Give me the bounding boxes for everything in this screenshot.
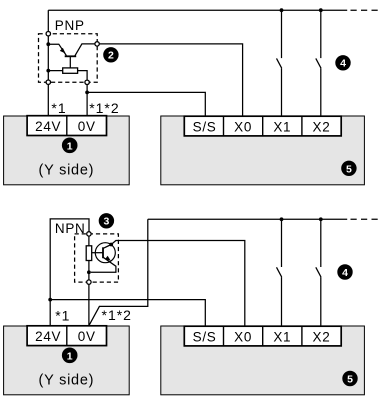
junction dot: PNP emitter node xyxy=(46,42,50,46)
wire: 24V to S/S (bottom) xyxy=(50,300,205,326)
terminal circle: PNP top xyxy=(46,32,50,36)
switch S3 blade xyxy=(277,267,282,277)
svg-text:3: 3 xyxy=(103,216,109,228)
terminal block 24V/0V (bottom) xyxy=(27,326,106,346)
wire: NPN main vertical lower to 0V terminal xyxy=(88,261,90,326)
wire: top rail dashed continuation xyxy=(351,9,379,11)
terminal circle: NPN bottom xyxy=(87,280,91,284)
junction dot: NPN emitter node xyxy=(87,270,91,274)
block: output unit (Y side) top xyxy=(4,116,130,185)
svg-text:(Y side): (Y side) xyxy=(39,162,95,178)
svg-text:*1: *1 xyxy=(55,308,70,324)
junction dot: NPN collector node xyxy=(109,243,113,247)
wire: X2 switch upper xyxy=(320,10,322,58)
junction dot: bottom rail X2 tap xyxy=(319,217,323,221)
wire: 0V drop from sensor to 0V terminal xyxy=(86,84,88,115)
terminal block S/S X0 X1 X2 (bottom) xyxy=(184,326,341,346)
wire: top 24V rail xyxy=(48,9,347,11)
block: output unit (Y side) bottom xyxy=(4,326,130,395)
svg-text:1: 1 xyxy=(67,350,73,362)
wire: PNP lower horizontal through resistor xyxy=(48,71,87,81)
transistor Q2 emitter lead with arrow xyxy=(91,257,116,272)
svg-text:NPN: NPN xyxy=(55,221,86,236)
svg-text:X1: X1 xyxy=(273,329,291,344)
junction dot: rail X1 tap xyxy=(280,8,284,12)
svg-text:X0: X0 xyxy=(234,329,252,344)
wire: bottom rail dashed continuation xyxy=(351,218,379,220)
svg-text:S/S: S/S xyxy=(193,329,217,344)
svg-text:X0: X0 xyxy=(234,119,252,134)
svg-text:X1: X1 xyxy=(273,119,291,134)
svg-text:4: 4 xyxy=(342,267,348,279)
wire: X2 switch lower (bottom) xyxy=(320,277,322,326)
svg-text:5: 5 xyxy=(346,163,352,175)
terminal divider X0|X1 (bottom) xyxy=(262,326,264,346)
terminal divider X0|X1 xyxy=(262,116,264,136)
terminal circle: PNP bottom-left xyxy=(46,80,50,84)
wire: NPN collector to X0 xyxy=(111,241,245,326)
wire: X1 switch upper xyxy=(281,10,283,58)
transistor Q1 collector lead xyxy=(75,44,95,56)
svg-text:X2: X2 xyxy=(313,119,331,134)
junction dot: PNP lower-left node xyxy=(46,69,50,73)
terminal block S/S X0 X1 X2 (top) xyxy=(184,116,341,136)
wire: NPN main vertical upper xyxy=(88,236,90,246)
wire: X1 switch lower xyxy=(281,68,283,116)
junction dot: rail X2 tap xyxy=(319,8,323,12)
svg-text:X2: X2 xyxy=(313,329,331,344)
sensor box PNP (dashed outline) xyxy=(39,34,98,82)
wire: X1 switch lower (bottom) xyxy=(281,277,283,326)
svg-text:(Y side): (Y side) xyxy=(39,372,95,388)
wire: X2 switch lower xyxy=(320,68,322,116)
terminal divider S/S|X0 (bottom) xyxy=(223,326,225,346)
terminal divider X1|X2 xyxy=(301,116,303,136)
resistor R1 (PNP base resistor) xyxy=(63,68,78,73)
junction dot: 0V / S-S node xyxy=(85,91,89,95)
block: PLC input unit (top) xyxy=(161,116,365,185)
svg-text:PNP: PNP xyxy=(55,18,85,33)
callout 3 xyxy=(99,213,114,228)
svg-text:0V: 0V xyxy=(78,329,96,344)
switch S2 blade xyxy=(316,58,321,68)
callout 4 (bottom) xyxy=(337,264,352,279)
transistor Q1 base lead down xyxy=(69,56,71,68)
svg-text:5: 5 xyxy=(347,374,353,386)
junction dot: bottom rail X1 tap xyxy=(280,217,284,221)
callout 1 (bottom) xyxy=(62,348,78,364)
transistor Q2 base lead xyxy=(92,252,103,254)
wire: X1 switch upper (bottom) xyxy=(281,219,283,267)
wire: S/S connection (0V to S/S) xyxy=(87,92,205,116)
callout 1 (top) xyxy=(62,138,78,154)
svg-text:24V: 24V xyxy=(35,119,61,134)
block: PLC input unit (bottom) xyxy=(161,326,365,395)
svg-text:2: 2 xyxy=(108,50,114,62)
wire: collector to X0 xyxy=(99,44,242,116)
switch S4 blade xyxy=(316,267,321,277)
svg-text:24V: 24V xyxy=(35,329,61,344)
svg-text:0V: 0V xyxy=(78,119,96,134)
transistor Q1 PNP emitter lead with arrow xyxy=(48,44,66,55)
terminal circle: NPN top xyxy=(87,232,91,236)
svg-text:S/S: S/S xyxy=(193,119,217,134)
wire: rail drop into PNP sensor top xyxy=(47,10,49,31)
wire: 24V feed to NPN sensor xyxy=(50,219,89,326)
terminal divider X1|X2 (bottom) xyxy=(301,326,303,346)
wire: PNP left rail (emitter supply to 24V) xyxy=(47,36,49,116)
transistor Q1 base bar xyxy=(65,55,77,57)
wire: X2 switch upper (bottom) xyxy=(320,219,322,267)
callout 2 xyxy=(103,47,118,62)
wire: bottom switch rail xyxy=(148,218,347,220)
svg-text:*1*2: *1*2 xyxy=(102,307,132,323)
terminal block 24V/0V (top) xyxy=(27,116,106,136)
svg-text:1: 1 xyxy=(67,140,73,152)
svg-text:4: 4 xyxy=(340,58,346,70)
sensor box NPN (dashed outline) xyxy=(75,234,119,282)
svg-text:*1*2: *1*2 xyxy=(89,100,119,116)
terminal circle: PNP bottom-right xyxy=(85,80,89,84)
terminal circle: PNP collector output xyxy=(95,42,99,46)
transistor Q2 envelope xyxy=(95,243,115,263)
terminal divider 24V|0V (bottom) xyxy=(66,326,68,346)
callout 5 (bottom) xyxy=(342,371,357,386)
junction dot: 24V / S-S node (bottom) xyxy=(48,298,52,302)
callout 5 (top) xyxy=(341,161,356,176)
switch S1 blade xyxy=(277,58,282,68)
transistor Q2 collector lead xyxy=(103,245,111,249)
wire: switch rail return to 0V (bottom) xyxy=(89,219,148,325)
terminal divider 24V|0V xyxy=(66,116,68,136)
transistor Q2 base bar xyxy=(102,247,104,258)
svg-text:*1: *1 xyxy=(51,100,66,116)
terminal divider S/S|X0 xyxy=(223,116,225,136)
callout 4 (top) xyxy=(335,55,350,70)
resistor R2 (NPN series resistor) xyxy=(86,246,92,261)
